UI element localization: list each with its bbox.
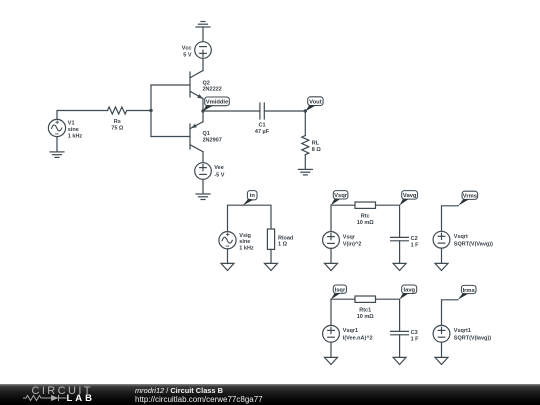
net flag Vavg [399, 191, 417, 206]
svg-text:Vsqr: Vsqr [334, 193, 348, 199]
wire Vout down to RL [304, 111, 306, 136]
wire Vsqr source to ground [330, 248, 332, 263]
svg-text:SQRT(V(Vavg)): SQRT(V(Vavg)) [454, 241, 493, 247]
ground (below C2, triangle) [393, 263, 406, 270]
transistor Q2 2N2222 (NPN) [190, 71, 203, 99]
label Rtc 10m [357, 214, 375, 226]
wire Vsqr row rail [331, 205, 355, 231]
svg-text:V1: V1 [68, 121, 75, 127]
voltage source Vsig sine 1kHz [219, 232, 236, 249]
svg-text:1 Ω: 1 Ω [278, 242, 288, 248]
svg-text:RL: RL [312, 141, 320, 147]
wire Irms stub [442, 300, 458, 326]
ground (below Vsqr1, triangle) [325, 357, 338, 364]
svg-text:Vsqrt: Vsqrt [454, 234, 468, 240]
label Vsqrt SQRT(V(Vavg)) [454, 234, 493, 247]
svg-text:Isqr: Isqr [335, 287, 346, 293]
resistor Rs 75 ohm [108, 107, 127, 114]
svg-text:Q2: Q2 [203, 80, 210, 86]
wire Rload to ground [270, 249, 272, 263]
net flag Vmiddle [203, 97, 230, 111]
svg-text:V(in)^2: V(in)^2 [343, 242, 362, 248]
wire Vsqrt to ground [441, 248, 443, 263]
label C2 1F [411, 236, 420, 248]
label Rload 1 [278, 235, 293, 247]
resistor Rtc 10mohm [355, 202, 376, 208]
wire Vee to ground [202, 179, 204, 193]
svg-text:5 V: 5 V [183, 53, 192, 59]
capacitor C3 1F [391, 331, 409, 334]
svg-text:C1: C1 [258, 123, 265, 129]
label V1 sine 1kHz [68, 121, 83, 140]
label Vsqr V(in)^2 [343, 234, 362, 247]
resistor RL 8 ohm [302, 136, 309, 155]
resistor Rtc1 10mohm [355, 296, 376, 302]
ground (below RL, earth) [298, 169, 312, 175]
label Vsqrt1 SQRT(V(Iavg)) [454, 328, 491, 341]
wire Vsqrt1 to ground [441, 342, 443, 357]
svg-text:Q1: Q1 [203, 131, 210, 137]
svg-text:75 Ω: 75 Ω [111, 126, 124, 132]
svg-text:Iavg: Iavg [403, 288, 415, 294]
svg-text:I(Vee.nA)^2: I(Vee.nA)^2 [343, 336, 373, 342]
wire Vcc to Q2 collector [202, 58, 204, 70]
wire bus to Q2 base [151, 84, 190, 86]
svg-text:Vsig: Vsig [239, 233, 251, 239]
label Vcc [182, 45, 192, 58]
svg-text:1 F: 1 F [411, 242, 420, 248]
voltage source Vsqrt SQRT(V(Vavg)) [433, 231, 450, 248]
voltage source Vee -5V [195, 163, 212, 180]
wire V1 up [57, 111, 108, 120]
svg-text:10 mΩ: 10 mΩ [357, 314, 375, 320]
logo CIRCUIT [32, 385, 93, 397]
svg-text:Vee: Vee [214, 165, 223, 171]
svg-text:1 kHz: 1 kHz [239, 246, 254, 252]
ground (below Rload, triangle) [265, 263, 278, 270]
net flag Vsqr [331, 191, 348, 206]
label Rs 75 [111, 119, 124, 131]
net flag Vout [305, 97, 323, 111]
wire Rtc1 to Iavg node [376, 299, 400, 331]
svg-text:Rload: Rload [278, 235, 293, 241]
net flag Irms [458, 285, 476, 299]
footer text line 2 [135, 395, 263, 404]
label Q1 2N2907 [203, 131, 222, 143]
svg-text:Vmiddle: Vmiddle [206, 99, 229, 105]
svg-text:2N2907: 2N2907 [203, 138, 222, 144]
logo LAB [67, 393, 96, 404]
wire bus to Q1 base [151, 136, 190, 138]
ground (below Vsqrt1, triangle) [435, 357, 448, 364]
svg-text:sine: sine [68, 127, 79, 133]
node Vout junction [304, 109, 307, 112]
voltage source Vsqrt1 SQRT(V(Iavg)) [433, 325, 450, 342]
wire V1 down to ground [56, 137, 58, 152]
net flag in [243, 191, 257, 206]
wire Vmiddle node down to Q1 emitter [202, 111, 204, 122]
transistor Q1 2N2907 (PNP) [190, 122, 203, 152]
ground (below Vsig, triangle) [221, 263, 234, 270]
svg-text:-5 V: -5 V [214, 172, 224, 178]
label RL 8 [312, 141, 322, 153]
svg-text:8 Ω: 8 Ω [312, 147, 322, 153]
voltage source Vcc 5V [195, 42, 212, 59]
wire Q1 collector to Vee [202, 152, 204, 163]
node input junction [149, 109, 152, 112]
svg-text:in: in [250, 193, 256, 199]
svg-text:C3: C3 [411, 330, 418, 336]
voltage source Vsqr V(in)^2 [323, 232, 340, 249]
ground (below V1, earth) [50, 152, 64, 158]
svg-text:Vsqrt1: Vsqrt1 [454, 328, 471, 334]
label Vsqr1 I(Vee.nA)^2 [343, 328, 373, 341]
capacitor C2 1F [391, 237, 409, 240]
svg-text:Vsqr: Vsqr [343, 234, 356, 240]
net flag Isqr [331, 285, 347, 299]
footer bar [0, 384, 540, 405]
ground (top of Vcc, inverted earth) [196, 22, 210, 28]
svg-text:Rtc1: Rtc1 [359, 308, 371, 314]
svg-text:Rtc: Rtc [361, 214, 370, 220]
svg-text:Vout: Vout [309, 99, 322, 105]
wire base bus vertical [150, 85, 152, 137]
svg-text:Irms: Irms [463, 288, 475, 294]
ground (below Vsqr, triangle) [325, 263, 338, 270]
label C3 1F [411, 330, 420, 342]
node Vmiddle junction [201, 109, 204, 112]
wire Vrms stub [442, 206, 459, 232]
ground (below C3, triangle) [393, 357, 406, 364]
logo wire with resistor and diode [0, 384, 110, 405]
label Vee -5V [214, 165, 224, 178]
ground (below Vsqrt, triangle) [435, 263, 448, 270]
svg-text:Rs: Rs [114, 119, 121, 125]
wire Q2 emitter down to Vmiddle node [202, 99, 204, 111]
svg-text:C2: C2 [411, 236, 418, 242]
wire RL to ground [304, 155, 306, 169]
ground (below Vee, earth) [196, 194, 210, 200]
capacitor C1 47uF [260, 103, 264, 119]
voltage source V1 sine 1kHz [48, 119, 65, 136]
svg-text:SQRT(V(Iavg)): SQRT(V(Iavg)) [454, 336, 491, 342]
svg-text:2N2222: 2N2222 [203, 87, 222, 93]
label C1 47uF [255, 123, 270, 135]
svg-text:47 µF: 47 µF [255, 129, 270, 135]
wire in-subcircuit top rail [228, 205, 272, 231]
svg-text:1 F: 1 F [411, 336, 420, 342]
wire C2 to ground [399, 241, 401, 264]
net flag Iavg [399, 285, 416, 299]
footer text line 1 [135, 386, 223, 395]
svg-text:10 mΩ: 10 mΩ [357, 220, 375, 226]
wire ground to Vcc [202, 27, 204, 42]
wire C1 to Vout node [264, 110, 305, 112]
wire Vsig to ground [227, 249, 229, 264]
label Q2 2N2222 [203, 80, 222, 92]
svg-text:sine: sine [239, 239, 250, 245]
svg-text:Vavg: Vavg [403, 193, 417, 199]
net flag Vrms [458, 191, 478, 206]
wire Rtc to Vavg node [376, 205, 400, 237]
wire Isqr row rail [331, 299, 355, 326]
wire Vsqr1 to ground [330, 342, 332, 357]
svg-text:Vsqr1: Vsqr1 [343, 328, 358, 334]
svg-text:1 kHz: 1 kHz [68, 133, 83, 139]
resistor Rload 1 ohm [267, 229, 274, 249]
wire C3 to ground [399, 335, 401, 358]
wire Vmiddle to C1 [203, 110, 260, 112]
wire Rs to bus [127, 110, 151, 112]
svg-text:Vcc: Vcc [182, 45, 192, 51]
svg-text:Vrms: Vrms [463, 194, 477, 200]
voltage source Vsqr1 I(Vee.nA)^2 [323, 325, 340, 342]
label Rtc1 10m [357, 308, 375, 320]
label Vsig sine 1kHz [239, 233, 254, 252]
